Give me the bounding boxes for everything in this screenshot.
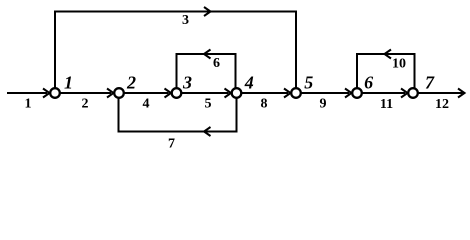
svg-text:11: 11 <box>380 97 393 112</box>
svg-text:2: 2 <box>82 97 89 112</box>
svg-text:5: 5 <box>304 73 313 93</box>
wire branch 11 (node6-node7) <box>363 89 408 98</box>
svg-text:3: 3 <box>182 13 189 28</box>
wire branch 5 (node3-node4) <box>182 89 231 98</box>
wire branch 2 (node1-node2) <box>61 89 114 98</box>
svg-text:7: 7 <box>425 73 435 93</box>
wire loop branch 10 (node7 up over to node6) <box>357 50 415 89</box>
wire loop branch 7 (node4 down under to node2) <box>119 98 237 136</box>
svg-text:3: 3 <box>182 73 192 93</box>
svg-text:6: 6 <box>364 73 373 93</box>
svg-text:7: 7 <box>168 137 175 152</box>
wire branch 8 (node4-node5) <box>242 89 291 98</box>
wire output branch 12 <box>419 89 465 98</box>
svg-text:12: 12 <box>435 97 449 112</box>
node 6 <box>352 88 362 98</box>
svg-text:8: 8 <box>261 97 268 112</box>
svg-text:5: 5 <box>205 97 212 112</box>
node 3 <box>172 88 182 98</box>
wire input branch 1 <box>7 89 50 98</box>
svg-text:1: 1 <box>64 73 73 93</box>
node 1 <box>50 88 60 98</box>
wire loop branch 6 (node4 up over to node3) <box>177 50 236 89</box>
wire branch 3 (node1 up over to node5) <box>55 7 296 88</box>
svg-text:9: 9 <box>320 97 327 112</box>
node 7 <box>408 88 418 98</box>
node 4 <box>232 88 242 98</box>
wire branch 4 (node2-node3) <box>125 89 172 98</box>
svg-text:10: 10 <box>392 57 406 72</box>
svg-text:4: 4 <box>244 73 254 93</box>
node 5 <box>291 88 301 98</box>
svg-text:6: 6 <box>213 56 220 71</box>
svg-text:2: 2 <box>126 73 136 93</box>
svg-text:1: 1 <box>25 97 32 112</box>
wire branch 9 (node5-node6) <box>302 89 352 98</box>
svg-text:4: 4 <box>143 97 150 112</box>
node 2 <box>114 88 124 98</box>
